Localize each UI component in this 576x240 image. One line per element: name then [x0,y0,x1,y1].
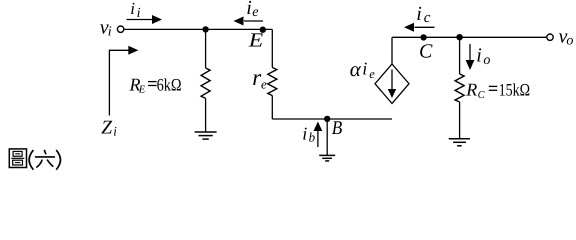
svg-text:i: i [416,3,422,25]
node C junction dot [420,34,426,40]
node E junction dot [260,27,266,33]
svg-text:B: B [332,118,343,139]
svg-text:e: e [252,5,258,20]
svg-text:15kΩ: 15kΩ [499,79,530,99]
svg-text:i: i [362,59,367,79]
current arrow i_b [314,122,323,148]
svg-text:α: α [350,57,362,81]
terminal vo [547,34,553,40]
glyph tu (figure) [9,149,26,168]
current arrow i_e [234,17,264,26]
svg-text:i: i [113,123,117,138]
svg-text:o: o [566,34,573,49]
node B junction dot [324,116,330,122]
svg-text:e: e [261,76,267,91]
svg-text:i: i [246,0,252,19]
svg-text:i: i [108,25,112,40]
resistor RC (lead + zigzag + lead) [455,37,464,139]
svg-text:i: i [302,124,307,144]
glyph liu (six) [35,150,55,168]
svg-text:i: i [137,6,141,21]
close paren [56,150,60,170]
svg-text:b: b [309,129,316,144]
junction dot at RE tap [202,26,208,32]
svg-text:c: c [424,10,431,26]
open paren [29,150,33,170]
svg-text:C: C [478,90,486,101]
ground below RC [449,139,470,146]
svg-text:Z: Z [101,118,112,139]
svg-text:E: E [138,85,146,96]
resistor re (lead + zigzag + lead) [268,29,277,119]
svg-text:i: i [476,45,482,67]
current arrow i_o [466,44,475,70]
svg-text:R: R [465,79,477,99]
resistor RE (lead + zigzag + lead) [201,29,210,132]
wire bottom from re to dependent source stem [272,118,392,120]
wire top-right rail to vo terminal [392,36,547,38]
svg-text:E: E [248,30,264,52]
ground below RE [195,132,217,139]
current arrow i_i [127,15,163,24]
svg-text:e: e [369,67,375,81]
wire top-left from vi terminal to re corner [124,28,273,30]
junction dot at RC tap [456,34,462,40]
ground below B (stem + bars) [319,119,335,161]
terminal vi [117,26,123,32]
wire from diamond top to top-right rail [391,37,393,64]
svg-text:o: o [483,53,490,68]
input impedance arrow Zi [109,46,138,116]
current arrow i_c [404,23,435,32]
dependent current source alpha*ie (diamond with down arrow) [375,64,409,104]
svg-text:i: i [130,0,135,18]
svg-text:6kΩ: 6kΩ [157,75,182,95]
caption figure(6) [9,149,60,170]
svg-text:C: C [419,41,433,63]
